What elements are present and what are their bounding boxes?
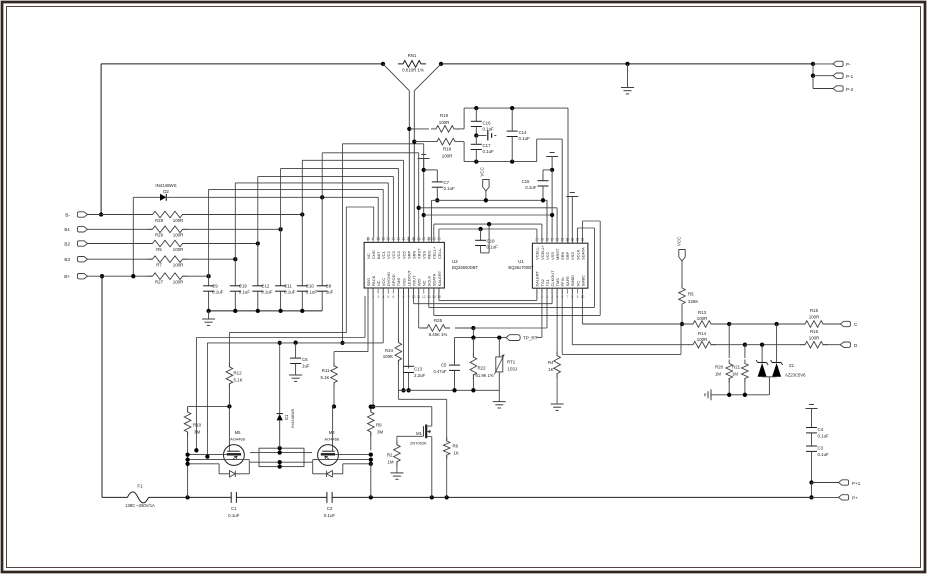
node RT1 top [497,335,501,339]
capacitor C14 0.1uF [511,108,513,131]
ground C4 (inverted) [809,404,814,406]
svg-text:0.1uF: 0.1uF [284,290,296,295]
svg-text:27: 27 [422,237,426,241]
wire D2 row left [133,196,160,198]
svg-text:AZ23C5V6: AZ23C5V6 [785,373,806,378]
svg-text:20: 20 [387,237,391,241]
svg-text:0.1uF: 0.1uF [818,452,830,457]
U1 bottom pin 8 SMBD [571,288,573,294]
capacitor C8 1uF [321,197,323,285]
svg-text:R29: R29 [155,233,164,238]
wire TOUT CLKOUT net [413,288,415,304]
svg-text:100R: 100R [173,263,184,268]
node VCC flag on rail [484,198,488,202]
svg-text:CELL-: CELL- [437,247,442,259]
U2 top pin 17 CHG [372,237,374,243]
svg-text:D1: D1 [284,414,289,420]
svg-text:P-2: P-2 [846,87,854,92]
node Z1 right top [774,322,778,326]
wire block right edge to U1 SRP [567,108,569,243]
wire M3 leads to right rail [335,454,371,456]
ground C7 (inverted) [421,154,426,156]
svg-text:C5: C5 [441,363,447,368]
connector TP_RT [506,335,520,341]
U2 top pin 28 REG [428,237,430,243]
ground R2 [390,472,403,474]
wire DVCHG gate feed [346,206,373,208]
U2 top pin 29 CELL+ [433,237,435,243]
svg-text:17: 17 [371,237,375,241]
svg-text:C3: C3 [818,445,824,450]
svg-text:R5: R5 [156,247,162,252]
wire M5 row2 feed [206,343,208,457]
wire block step to U1 SRN [536,139,538,162]
wire M5 row1 feed [364,296,366,338]
svg-text:138C ~250V/1A: 138C ~250V/1A [125,503,155,508]
resistor R2 1M [396,436,398,444]
svg-text:2.2uF: 2.2uF [414,373,426,378]
wire U1 SMBD to R14 [571,288,573,345]
ground RT1 [493,401,506,403]
capacitor C3 0.1uF [806,445,817,447]
wire B2 row to riser [183,243,258,245]
op-amp U2 BQ26500DBT box [364,242,444,288]
svg-text:RN1: RN1 [408,53,417,58]
U2 top pin 18 BAT [377,237,379,243]
svg-text:23: 23 [402,237,406,241]
svg-text:R22: R22 [478,365,487,370]
node R9 top [369,405,373,409]
svg-text:IN4148WS: IN4148WS [290,408,295,428]
svg-text:1uF: 1uF [302,363,310,368]
node R5 on SMBC line [680,322,684,326]
svg-text:KALERT: KALERT [437,270,442,286]
svg-text:P+1: P+1 [852,481,861,486]
svg-text:TP_RT: TP_RT [523,336,538,341]
U2 bottom pin 1 SEG [367,288,369,294]
wire gnd rail R22 cluster [398,389,499,391]
wire KALERT net [438,288,440,300]
svg-text:0.1uF: 0.1uF [324,513,336,518]
resistor R29 100R [148,226,188,233]
svg-text:R6: R6 [453,443,459,448]
wire SMBD to R16 [745,344,805,346]
svg-text:R12: R12 [234,370,243,375]
U1 top pin 11 SDATA [582,238,584,243]
svg-text:0.1uF: 0.1uF [228,513,240,518]
wire B1 row to riser [183,228,281,230]
resistor R27 100R [148,273,188,280]
wire B+ row to riser [183,275,209,277]
wire B1 row [88,228,153,230]
node R11 bottom [332,404,336,408]
capacitor C9 0.1uF [208,276,210,286]
svg-text:C6: C6 [302,357,308,362]
U1 bottom pin 2 TS2 [541,288,543,294]
connector P+ [809,495,813,499]
svg-text:100R: 100R [697,316,708,321]
svg-text:BQ26500DBT: BQ26500DBT [452,265,479,270]
wire B- row [88,214,153,216]
svg-text:100R: 100R [439,120,450,125]
U1 bottom pin 3 TS1 [546,288,548,294]
svg-text:18: 18 [545,238,549,242]
wire bottom rail [149,496,232,498]
resistor R7 100R [148,256,188,263]
svg-text:19: 19 [540,238,544,242]
U2 top pin 22 VC4 [397,237,399,243]
svg-text:M5: M5 [235,430,241,435]
wire R9 M1 line [371,406,432,408]
U2 bottom pin 9 LEDOUT [408,288,410,294]
node C15 on VCC rail [541,198,545,202]
U2 bottom pin 12 NC [423,288,425,294]
svg-text:C9: C9 [212,284,218,289]
U1 top pin 20 VCELL- [536,238,538,243]
U2 bottom pin 8 VSS [402,288,404,294]
svg-text:1K: 1K [454,450,459,455]
resistor R16 100R [800,341,828,348]
svg-text:B+: B+ [64,274,70,279]
wire VCC rail [431,199,547,201]
wire B- row to riser [183,214,302,216]
wire U2 VSS8 to gnd rail [403,288,405,390]
node R21 top [743,343,747,347]
connector P-2 [812,76,814,89]
zener Z1 right [776,324,778,363]
wire BAT pin drop [377,197,379,242]
svg-text:100K: 100K [383,354,393,359]
wire U2 SCLK loop to U1 [428,288,430,307]
wire U1 SMBC to R13 [581,288,583,324]
svg-text:25: 25 [412,237,416,241]
U1 top pin 14 SRP [566,238,568,243]
node C7 on VCC rail [435,198,439,202]
wire U2 SDATA loop to U1 [433,288,435,315]
ground C6 [289,374,302,376]
svg-text:SDATA: SDATA [580,247,585,260]
capacitor C18 0.1uF [480,229,482,240]
svg-text:R21: R21 [732,364,740,369]
svg-text:19: 19 [381,237,385,241]
svg-text:61.9K 1%: 61.9K 1% [476,373,494,378]
U2 top pin 24 SRP [408,237,410,243]
node Z1 left top [760,343,764,347]
svg-text:C4: C4 [818,427,824,432]
svg-text:R9: R9 [376,422,382,427]
diode M5 body [244,459,249,461]
svg-text:30: 30 [437,237,441,241]
U1 bottom pin 1 KALERT [536,288,538,294]
svg-text:C19: C19 [239,284,248,289]
wire D2 row right to BAT pin [167,196,378,198]
svg-text:B1: B1 [64,227,70,232]
svg-text:C11: C11 [284,284,292,289]
resistor R21 1M [744,345,746,358]
resistor R22 61.9K 1% [472,338,474,357]
node RN1 right [439,62,443,66]
node C7 ground tap [422,168,426,172]
svg-text:100R: 100R [173,218,184,223]
U2 top pin 20 VC2 [387,237,389,243]
wire M5 right leads to pack box [250,452,259,454]
wire RN1 kelvin right diagonal [414,64,441,91]
U1 bottom pin 10 SMBC [582,288,584,294]
svg-text:VCC: VCC [677,237,682,246]
svg-text:1uF: 1uF [326,290,334,295]
wire B+ row [88,275,153,277]
svg-text:3M: 3M [377,429,383,434]
svg-text:2N7002K: 2N7002K [410,441,427,446]
wire nest B3 to VC2 [234,183,236,259]
wire M3 box leads [304,452,312,454]
wire kelvin SRP vertical [408,91,410,243]
node D2 riser [320,195,324,199]
svg-text:15: 15 [560,238,564,242]
wire C3 to bottom rail [811,483,813,498]
svg-text:100R: 100R [173,280,184,285]
resistor R5 226K [681,261,683,287]
capacitor C5 0.47uF [449,364,460,366]
svg-text:R19: R19 [440,113,449,118]
diode D2 IN4148WS [160,194,166,201]
svg-text:17: 17 [550,238,554,242]
U2 top pin 26 XRST [418,237,420,243]
svg-text:R24: R24 [385,348,394,353]
svg-text:R25: R25 [434,318,443,323]
capacitor C10 0.1uF [301,215,303,286]
svg-text:C12: C12 [261,284,270,289]
svg-text:BQ26x700BT: BQ26x700BT [508,265,534,270]
svg-text:VCC: VCC [480,167,485,176]
svg-text:AO4468: AO4468 [324,437,339,442]
svg-text:D2: D2 [163,189,169,194]
svg-text:R16: R16 [810,329,819,334]
svg-text:100R: 100R [697,337,708,342]
wire nest B+ to VC1 [208,189,210,276]
U1 top pin 18 VCC [546,238,548,243]
svg-text:Z1: Z1 [789,363,795,368]
node SRP R19 tap [407,127,411,131]
U2 bottom pin 10 TOUT [413,288,415,294]
connector C [840,321,850,326]
resistor R6 1K [446,399,448,441]
capacitor C13 2.2uF [408,288,410,369]
node C18 loop top [487,222,491,226]
U2 bottom pin 14 SDATA [433,288,435,294]
wire CELL- to VCELL- [439,228,537,230]
capacitor C19 0.1uF [234,259,236,286]
wire R10 R12 junction line [188,405,230,407]
ground caps rail [208,311,210,319]
battery cell symbol [476,135,486,137]
svg-text:0.1uF: 0.1uF [818,433,830,438]
svg-text:12: 12 [422,295,426,299]
svg-text:U1: U1 [518,259,524,264]
svg-text:0.1uF: 0.1uF [444,186,456,191]
wire U2 PACK to R9 M1 line [372,288,374,407]
svg-text:R4: R4 [548,360,554,365]
svg-text:20: 20 [535,238,539,242]
wire U1 PFIN to R5 node [561,288,563,354]
svg-text:9: 9 [577,295,579,299]
svg-text:1K: 1K [548,367,553,372]
node RN1 left [381,62,385,66]
svg-text:R2: R2 [387,453,393,458]
svg-text:103J: 103J [508,366,518,371]
U2 top pin 21 VC3 [392,237,394,243]
svg-text:R10: R10 [193,422,202,427]
U1 bottom pin 6 PFIN [561,288,563,294]
svg-text:IN4148WS: IN4148WS [155,183,176,188]
wire M1 gate to R2 [397,435,424,437]
svg-text:R13: R13 [698,310,707,315]
resistor R5 100R [148,240,188,247]
package pad box between FETs [259,448,304,466]
U2 top pin 16 NC [367,237,369,243]
resistor R14 100R [688,341,716,348]
wire SMBC line to R13 [582,323,689,325]
wire top rail left (P- net) [101,63,383,65]
U2 top pin 19 VC1 [382,237,384,243]
wire D2 anode riser from B+ [132,197,134,276]
wire XRST-MRST net [417,206,421,210]
svg-text:5: 5 [387,295,389,299]
wire R6 gate line [398,398,446,400]
capacitor C17 0.1uF [475,136,477,145]
svg-text:C15: C15 [521,179,530,184]
svg-text:24: 24 [407,237,411,241]
svg-text:RT1: RT1 [507,359,516,364]
svg-text:SMBC: SMBC [580,275,585,287]
capacitor C6 1uF [295,343,297,358]
node R25 right [471,326,475,330]
svg-text:P-1: P-1 [846,74,854,79]
svg-text:U2: U2 [452,259,458,264]
wire M5 leads to left rail [188,454,227,456]
svg-text:29: 29 [432,237,436,241]
svg-text:100R: 100R [809,315,820,320]
capacitor C7 0.1uF [424,169,438,171]
svg-text:0.1uF: 0.1uF [525,185,537,190]
U1 top pin 17 VSS [551,238,553,243]
wire C16 block bottom rail [464,161,537,163]
U1 top pin 12 SCLK [576,238,578,243]
svg-text:C14: C14 [519,130,528,135]
svg-text:P+: P+ [852,496,858,501]
capacitor C1 0.1uF [230,492,232,503]
svg-text:100R: 100R [442,153,453,158]
capacitor C15 0.1uF [543,169,552,171]
svg-text:3M: 3M [194,429,200,434]
node C16 C17 mid [474,133,478,137]
node B3 riser [233,257,237,261]
svg-text:1M: 1M [715,371,721,376]
svg-text:B-: B- [65,212,70,217]
wire M5 gate drop [228,406,230,451]
wire VSS-VSS net [422,213,426,217]
U1 bottom pin 9 NC [576,288,578,294]
svg-text:26: 26 [417,237,421,241]
svg-text:F1: F1 [137,484,143,489]
svg-text:0.1uF: 0.1uF [483,149,495,154]
wire D1 top to C6 line [279,343,281,414]
svg-text:R18: R18 [443,146,452,151]
op-amp U1 BQ26x700BT box [532,243,588,288]
node B- left vertical [99,212,103,216]
svg-text:28: 28 [427,237,431,241]
resistor R12 5.1K [228,333,230,367]
U2 bottom pin 15 KALERT [438,288,440,294]
U1 bottom pin 4 CLKOUT [551,288,553,294]
thermistor RT1 103J [498,338,500,357]
svg-text:R14: R14 [698,331,707,336]
node R22 top [471,335,475,339]
ground R4 [551,403,564,405]
svg-text:0.1uF: 0.1uF [519,136,531,141]
wire RN1 kelvin left diagonal [383,64,409,91]
node C18 top [478,227,482,231]
svg-text:R27: R27 [155,280,164,285]
wire M1 source to bottom rail [431,437,433,498]
resistor R25 8.45K 1% [418,288,420,328]
capacitor C11 0.1uF [280,229,282,285]
connector P-1 [812,64,814,76]
node R12 bottom [227,404,231,408]
svg-text:C18: C18 [487,238,496,243]
U2 top pin 25 SRN [413,237,415,243]
wire C6 line to U2 VCC pin [207,342,383,344]
svg-text:C13: C13 [414,366,423,371]
resistor R11 5.1K [333,352,335,367]
diode D1 IN4148WS [277,413,283,415]
svg-text:100R: 100R [809,335,820,340]
svg-text:B2: B2 [64,241,70,246]
svg-text:R7: R7 [156,263,162,268]
wire U2 SEG to R11 gate line [367,288,369,352]
U1 top pin 19 VCELL+ [541,238,543,243]
wire Z1 cathodes join [762,376,777,378]
node B1 riser [278,227,282,231]
svg-text:R15: R15 [810,308,819,313]
svg-text:5.1K: 5.1K [320,375,329,380]
svg-text:8.45K 1%: 8.45K 1% [429,332,448,337]
capacitor C2 0.1uF [326,492,328,503]
svg-text:100R: 100R [173,233,184,238]
resistor R18 100R [414,141,432,143]
U2 bottom pin 3 NC [377,288,379,294]
U2 bottom pin 5 DVCHG [387,288,389,294]
svg-text:1M: 1M [732,371,738,376]
wire caps ground rail [209,310,323,312]
node C6 top [293,340,297,344]
svg-text:M1: M1 [416,431,422,436]
wire U1 TS1 to R25 line [546,288,548,328]
svg-text:B3: B3 [64,257,70,262]
node B- riser [300,212,304,216]
U2 bottom pin 11 WDI [418,288,420,294]
svg-text:R11: R11 [322,368,330,373]
U1 bottom pin 5 TMS [556,288,558,294]
wire C6 net to U2 VSS12 [342,144,344,343]
U1 top pin 13 VSS [571,238,573,243]
svg-text:0.1uF: 0.1uF [306,290,318,295]
svg-text:C16: C16 [483,120,492,125]
wire nest B2 to VC3 [257,177,259,244]
U2 bottom pin 6 GPOD [392,288,394,294]
U1 top pin 16 MRST [556,238,558,243]
wire M3 gate drop [332,407,334,452]
